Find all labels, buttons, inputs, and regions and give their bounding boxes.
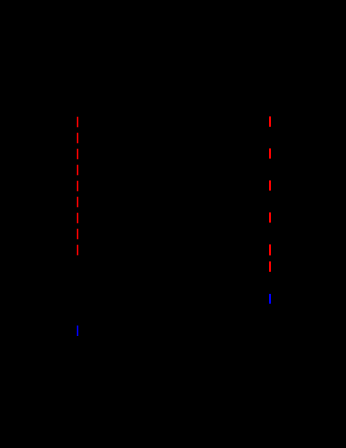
right blue tick marker (series 2 point) [269,294,271,304]
left red dashed vline (series 1 range bar) [77,117,79,256]
right red dashed vline (series 2 range bar) [269,116,271,255]
left blue tick marker (series 1 point) [77,326,79,337]
right red lower dash (series 2 range bar tail) [269,261,271,271]
